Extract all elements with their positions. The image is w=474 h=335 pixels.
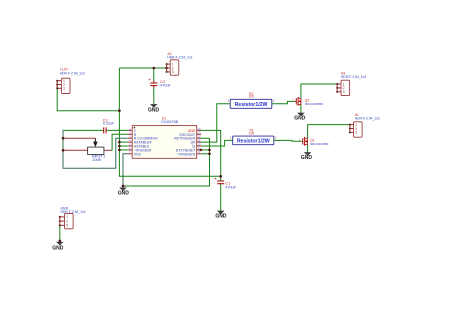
svg-text:2: 2 (355, 127, 357, 131)
svg-text:HDR-F-2.54_1x3: HDR-F-2.54_1x3 (167, 56, 192, 60)
svg-text:ASTABLE: ASTABLE (134, 145, 150, 149)
svg-text:470uF: 470uF (160, 83, 171, 87)
svg-text:+12V: +12V (60, 68, 69, 72)
svg-text:GND: GND (148, 108, 160, 114)
svg-text:1: 1 (172, 62, 174, 66)
svg-text:R-C/COMMON: R-C/COMMON (134, 137, 158, 141)
svg-text:12: 12 (197, 135, 201, 139)
svg-text:1: 1 (230, 136, 232, 140)
svg-text:2: 2 (273, 99, 275, 103)
svg-text:3: 3 (66, 224, 68, 228)
svg-text:GND: GND (215, 214, 227, 220)
svg-text:VSS: VSS (134, 152, 142, 156)
svg-text:1: 1 (355, 123, 357, 127)
svg-text:2: 2 (275, 136, 277, 140)
svg-text:10: 10 (197, 142, 201, 146)
svg-text:GND: GND (118, 191, 130, 197)
svg-text:GND: GND (52, 246, 64, 252)
svg-text:IRFZ44NPBF: IRFZ44NPBF (310, 142, 329, 146)
svg-text:2: 2 (66, 219, 68, 223)
svg-text:Q#: Q# (190, 141, 195, 145)
svg-text:-TRIGGER: -TRIGGER (134, 148, 152, 152)
svg-text:EXT.RESET: EXT.RESET (176, 148, 196, 152)
svg-text:13: 13 (197, 131, 201, 135)
svg-text:ASTABLE#: ASTABLE# (134, 141, 152, 145)
svg-text:GND: GND (294, 116, 306, 122)
svg-text:IRFZ44NPBF: IRFZ44NPBF (305, 102, 324, 106)
svg-text:1: 1 (66, 215, 68, 219)
svg-text:3: 3 (172, 70, 174, 74)
svg-text:3: 3 (343, 90, 345, 94)
svg-text:RETRIGGER: RETRIGGER (174, 137, 196, 141)
svg-text:OSC/OUT: OSC/OUT (179, 133, 196, 137)
svg-text:100: 100 (249, 95, 255, 99)
svg-text:Q: Q (192, 145, 195, 149)
svg-text:HDR-F-2.54_1x3: HDR-F-2.54_1x3 (341, 75, 366, 79)
svg-text:2: 2 (172, 66, 174, 70)
svg-text:VDD: VDD (188, 129, 196, 133)
svg-text:1: 1 (227, 99, 229, 103)
svg-text:+TRIGGER: +TRIGGER (177, 152, 196, 156)
svg-text:HDR-F-2.54_1x3: HDR-F-2.54_1x3 (61, 210, 86, 214)
svg-text:C: C (134, 129, 137, 133)
svg-text:2: 2 (343, 86, 345, 90)
svg-text:1: 1 (343, 82, 345, 86)
svg-text:Resistor1/2W: Resistor1/2W (237, 138, 270, 144)
svg-text:3: 3 (355, 131, 357, 135)
svg-text:11: 11 (197, 139, 200, 143)
svg-text:470uF: 470uF (225, 185, 236, 189)
svg-text:100K: 100K (92, 157, 102, 162)
svg-text:14: 14 (197, 127, 201, 131)
svg-text:GND: GND (301, 155, 313, 161)
svg-text:3: 3 (63, 87, 65, 91)
svg-text:100: 100 (249, 131, 255, 135)
svg-text:0.22uF: 0.22uF (103, 121, 115, 125)
svg-text:R: R (134, 133, 137, 137)
svg-text:Resistor1/2W: Resistor1/2W (235, 102, 268, 108)
svg-text:HDR-F-2.54_1x3: HDR-F-2.54_1x3 (60, 72, 85, 76)
svg-text:CD4047BB: CD4047BB (161, 120, 179, 124)
svg-text:HDR-F-2.54_1x3: HDR-F-2.54_1x3 (355, 116, 380, 120)
